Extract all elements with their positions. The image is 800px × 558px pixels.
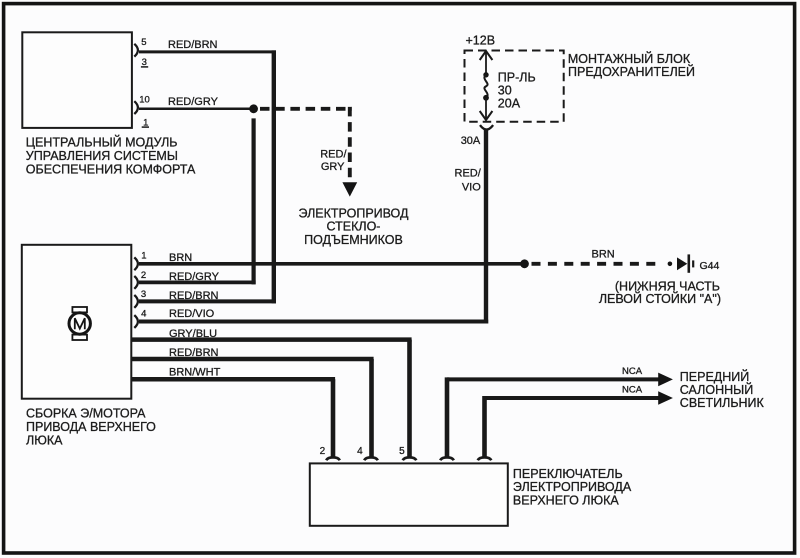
svg-text:VIO: VIO	[462, 181, 481, 193]
switch caption	[513, 467, 632, 507]
motor pin 2 connector arc	[134, 276, 138, 289]
svg-text:2: 2	[141, 270, 146, 281]
wire RED/VIO vertical run	[484, 130, 488, 324]
svg-text:BRN/WHT: BRN/WHT	[169, 367, 221, 379]
motor assembly label	[26, 407, 156, 448]
ground location note	[599, 279, 721, 305]
arrowhead NCA upper	[658, 373, 673, 387]
ground symbol G44	[677, 257, 687, 270]
svg-text:BRN: BRN	[169, 252, 192, 264]
svg-text:ПЕРЕДНИЙ: ПЕРЕДНИЙ	[680, 369, 749, 384]
arrowhead down (chevron)	[480, 111, 493, 120]
svg-text:5: 5	[141, 37, 146, 48]
fuse box caption	[568, 51, 695, 79]
wire RED/GRY to motor pin 2	[139, 280, 256, 284]
motor symbol circle	[69, 313, 90, 334]
wire RED/BRN vertical run	[272, 50, 276, 303]
motor pin 4 connector arc	[134, 315, 138, 328]
svg-text:2: 2	[320, 446, 326, 457]
wire NCA upper vertical	[445, 377, 450, 456]
wire BRN/WHT	[132, 377, 336, 382]
wire BRN/WHT vertical to switch pin 2	[331, 379, 336, 457]
svg-text:ВЕРХНЕГО ЛЮКА: ВЕРХНЕГО ЛЮКА	[513, 493, 620, 507]
junction node BRN	[520, 259, 529, 268]
junction node	[249, 104, 258, 113]
svg-text:4: 4	[141, 309, 146, 320]
svg-text:+12В: +12В	[466, 34, 496, 48]
wire GRY/BLU vertical to switch pin 5	[407, 340, 412, 457]
switch pin 4 socket arc	[364, 457, 378, 460]
wire GRY/BLU	[132, 337, 412, 342]
svg-text:20А: 20А	[498, 97, 521, 111]
svg-text:ЭЛЕКТРОПРИВОДА: ЭЛЕКТРОПРИВОДА	[513, 480, 632, 494]
svg-text:ЦЕНТРАЛЬНЫЙ МОДУЛЬ: ЦЕНТРАЛЬНЫЙ МОДУЛЬ	[26, 135, 178, 150]
switch pin 2 socket arc	[326, 457, 340, 460]
motor pin 1 connector arc	[134, 257, 138, 270]
fuse output wire	[485, 98, 487, 120]
svg-text:RED/: RED/	[320, 149, 347, 161]
dashed wire RED/GRY branch horizontal	[260, 107, 352, 111]
motor symbol M	[75, 318, 85, 329]
pin 5 connector arc	[134, 44, 138, 57]
svg-text:ЛЕВОЙ СТОЙКИ "А"): ЛЕВОЙ СТОЙКИ "А")	[599, 291, 721, 306]
comfort module label	[26, 135, 196, 177]
svg-text:СВЕТИЛЬНИК: СВЕТИЛЬНИК	[680, 396, 765, 410]
ground terminal dot	[668, 262, 673, 267]
wire RED/GRY from pin 10	[139, 108, 254, 111]
svg-text:RED/BRN: RED/BRN	[169, 290, 219, 302]
svg-text:ОБЕСПЕЧЕНИЯ КОМФОРТА: ОБЕСПЕЧЕНИЯ КОМФОРТА	[26, 162, 196, 176]
svg-text:NCA: NCA	[622, 366, 643, 377]
svg-text:1: 1	[141, 251, 146, 262]
sunroof motor assembly box	[22, 245, 132, 399]
label RED/GRY (branch)	[320, 149, 347, 174]
svg-text:RED/GRY: RED/GRY	[169, 271, 220, 283]
wire RED/BRN vertical to switch pin 4	[369, 359, 374, 457]
front dome light note	[680, 369, 765, 410]
pin 10 connector arc	[134, 101, 138, 114]
svg-text:10: 10	[139, 94, 150, 105]
wire NCA upper	[447, 377, 659, 381]
svg-text:BRN: BRN	[592, 249, 615, 261]
svg-text:ПР-ЛЬ: ПР-ЛЬ	[498, 71, 536, 85]
svg-text:САЛОННЫЙ: САЛОННЫЙ	[680, 382, 753, 397]
svg-text:ПЕРЕКЛЮЧАТЕЛЬ: ПЕРЕКЛЮЧАТЕЛЬ	[513, 467, 623, 481]
svg-text:RED/BRN: RED/BRN	[168, 39, 218, 51]
label RED/VIO	[455, 167, 482, 193]
wire RED/BRN (lower)	[132, 357, 374, 362]
socket arc below fuse box	[480, 125, 493, 129]
switch pin 5 socket arc	[403, 457, 417, 460]
svg-text:СТЕКЛО-: СТЕКЛО-	[327, 220, 381, 234]
svg-text:5: 5	[399, 446, 405, 457]
dashed wire BRN to ground	[532, 262, 662, 266]
fuse label	[498, 71, 536, 111]
svg-text:ЭЛЕКТРОПРИВОД: ЭЛЕКТРОПРИВОД	[299, 207, 409, 221]
wire RED/BRN from pin 5	[139, 50, 276, 53]
motor pin 3 connector arc	[134, 295, 138, 308]
sunroof switch box	[310, 463, 508, 525]
switch pin socket arc (NCA upper)	[440, 457, 454, 460]
svg-text:RED/GRY: RED/GRY	[168, 96, 219, 108]
fuse element bottom terminal	[483, 95, 489, 101]
dashed wire RED/GRY branch vertical	[348, 107, 352, 183]
fuse feed wire upper	[485, 52, 487, 76]
fuse block dashed box	[465, 51, 564, 122]
svg-text:30: 30	[498, 84, 512, 98]
svg-text:GRY/BLU: GRY/BLU	[169, 328, 217, 340]
wire BRN	[139, 262, 525, 266]
svg-text:GRY: GRY	[321, 161, 345, 173]
wire NCA lower	[485, 396, 660, 400]
svg-text:ПОДЪЕМНИКОВ: ПОДЪЕМНИКОВ	[304, 233, 403, 247]
window lifter motor note	[299, 207, 409, 247]
svg-text:МОНТАЖНЫЙ БЛОК: МОНТАЖНЫЙ БЛОК	[568, 51, 691, 66]
motor symbol brush top	[72, 307, 87, 312]
arrowhead NCA lower	[658, 391, 673, 405]
svg-text:3: 3	[141, 289, 146, 300]
svg-text:30А: 30А	[461, 135, 481, 147]
svg-text:RED/BRN: RED/BRN	[169, 347, 219, 359]
svg-text:ПРИВОДА ВЕРХНЕГО: ПРИВОДА ВЕРХНЕГО	[26, 420, 156, 434]
svg-text:RED/VIO: RED/VIO	[169, 308, 215, 320]
svg-text:ЛЮКА: ЛЮКА	[26, 433, 63, 447]
wire RED/BRN to motor pin 3	[139, 299, 276, 303]
arrowhead to window lifters	[342, 182, 357, 196]
fuse element top terminal	[483, 72, 488, 77]
svg-text:4: 4	[357, 446, 363, 457]
arrowhead up (chevron)	[480, 51, 493, 60]
svg-text:G44: G44	[700, 260, 720, 272]
svg-text:СБОРКА Э/МОТОРА: СБОРКА Э/МОТОРА	[26, 407, 146, 421]
wire RED/VIO to motor pin 4	[139, 320, 488, 324]
motor symbol brush bottom	[72, 335, 87, 340]
svg-text:RED/: RED/	[455, 167, 482, 179]
wire NCA lower vertical	[482, 396, 487, 457]
comfort control module box	[22, 32, 132, 128]
fuse element wavy link	[484, 75, 487, 98]
svg-text:NCA: NCA	[622, 385, 643, 396]
svg-text:УПРАВЛЕНИЯ СИСТЕМЫ: УПРАВЛЕНИЯ СИСТЕМЫ	[26, 149, 178, 163]
switch pin socket arc (NCA lower)	[478, 457, 492, 460]
svg-text:ПРЕДОХРАНИТЕЛЕЙ: ПРЕДОХРАНИТЕЛЕЙ	[568, 64, 695, 79]
wire RED/GRY vertical run	[252, 118, 256, 284]
